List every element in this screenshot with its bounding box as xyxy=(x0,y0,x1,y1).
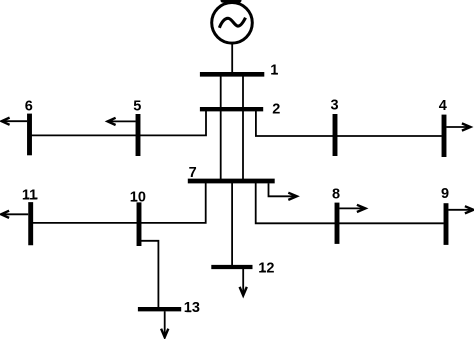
load arrow bus 11 xyxy=(4,213,29,215)
bus 12 xyxy=(211,265,252,269)
wire bus2 to left feeder (to buses 5,6) xyxy=(30,110,207,135)
bus 13 xyxy=(138,307,181,311)
wire generator to bus 1 xyxy=(231,43,233,74)
generator G xyxy=(212,3,253,44)
bus 10 xyxy=(137,202,142,246)
svg-text:13: 13 xyxy=(184,300,200,316)
bus 8 xyxy=(335,203,340,244)
load arrow bus 8 xyxy=(340,207,363,209)
wire bus7 to right feeder (to buses 8,9) xyxy=(256,182,444,223)
load arrow bus 5 xyxy=(110,120,136,122)
wire bus1-bus2-bus7 left transformer line xyxy=(220,74,222,181)
bus 6 xyxy=(27,114,32,156)
bus 5 xyxy=(136,114,141,156)
load arrow bus 6 xyxy=(4,120,27,122)
load arrow bus 4 xyxy=(447,126,468,128)
svg-text:12: 12 xyxy=(258,260,274,276)
wire bus7 to left feeder (to buses 10,11) xyxy=(31,182,206,223)
svg-text:11: 11 xyxy=(22,187,37,203)
wire bus7 to bus 12 xyxy=(231,182,233,266)
bus 9 xyxy=(444,203,449,245)
bus 3 xyxy=(333,114,338,156)
bus 11 xyxy=(28,202,33,245)
wire bus2 to right feeder (to buses 3,4) xyxy=(256,110,442,136)
svg-text:10: 10 xyxy=(130,190,146,206)
load arrow bus 12 xyxy=(242,269,244,293)
load arrow bus 9 xyxy=(449,209,471,211)
clipped mark above generator xyxy=(221,0,242,3)
bus 2 xyxy=(200,107,263,111)
svg-text:1: 1 xyxy=(270,63,278,79)
bus 7 xyxy=(188,179,275,184)
svg-text:5: 5 xyxy=(133,99,141,115)
svg-text:8: 8 xyxy=(332,187,340,203)
svg-text:3: 3 xyxy=(331,98,339,114)
wire bus10 to bus 13 xyxy=(140,241,158,308)
svg-text:2: 2 xyxy=(272,101,280,117)
svg-text:6: 6 xyxy=(25,99,33,115)
svg-text:4: 4 xyxy=(439,98,447,114)
wire bus1-bus2-bus7 right transformer line xyxy=(242,74,244,181)
svg-text:9: 9 xyxy=(441,186,449,202)
bus 4 xyxy=(442,115,447,157)
svg-text:7: 7 xyxy=(189,165,197,181)
load arrow bus 13 xyxy=(164,311,166,334)
bus 1 xyxy=(200,72,264,77)
load arrow bus 7 xyxy=(269,183,295,196)
